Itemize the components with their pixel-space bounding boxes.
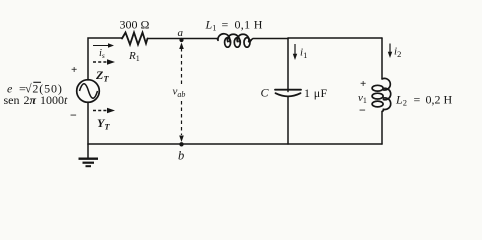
svg-text:b: b — [178, 149, 184, 163]
svg-text:=: = — [414, 93, 421, 107]
node a — [178, 27, 184, 42]
impedance arrow ZT — [93, 59, 115, 83]
label v1 with polarity — [358, 78, 367, 117]
svg-text:YT: YT — [97, 116, 110, 132]
svg-text:0,1 H: 0,1 H — [235, 18, 263, 32]
svg-text:a: a — [178, 27, 184, 39]
svg-text:is: is — [99, 48, 105, 60]
ground — [79, 159, 99, 167]
wire: capacitor branch lower — [287, 97, 289, 145]
svg-text:i1: i1 — [300, 47, 307, 61]
wire: source to bottom — [87, 102, 89, 144]
svg-text:1 μF: 1 μF — [304, 86, 328, 100]
vab dashed measurement line — [173, 43, 186, 143]
svg-text:=: = — [222, 18, 229, 32]
inductor L2 — [372, 78, 391, 111]
wire: L1 to capacitor junction — [251, 39, 288, 40]
svg-text:R1: R1 — [128, 50, 140, 63]
wire: resistor to inductor L1 — [148, 39, 219, 41]
svg-text:vab: vab — [173, 86, 186, 100]
svg-text:sen: sen — [4, 93, 20, 107]
svg-text:−: − — [70, 108, 77, 122]
node b — [178, 142, 184, 162]
label e = sqrt2(50) sen 2pi 1000t — [4, 82, 69, 108]
wire top-left: source to resistor — [88, 38, 122, 80]
svg-text:0,2 H: 0,2 H — [426, 93, 453, 107]
current arrow i2 — [388, 44, 402, 60]
svg-text:+: + — [360, 78, 366, 90]
wire: ground stem — [87, 144, 89, 158]
current arrow is — [93, 43, 114, 60]
wire: bottom — [88, 143, 382, 145]
svg-text:C: C — [261, 86, 270, 100]
svg-text:300 Ω: 300 Ω — [120, 18, 150, 32]
svg-text:−: − — [359, 103, 366, 117]
svg-text:2π: 2π — [24, 93, 37, 107]
resistor R1 — [122, 33, 148, 45]
svg-text:L1: L1 — [205, 18, 217, 33]
inductor L1 — [218, 34, 251, 47]
label L2 = 0,2 H — [395, 93, 453, 108]
wire: right branch upper — [381, 38, 383, 79]
voltage source E — [77, 80, 100, 103]
wire: capacitor junction to top-right corner — [288, 37, 382, 39]
label L1 = 0,1 H — [205, 18, 263, 33]
svg-text:1000t: 1000t — [40, 93, 68, 107]
wire: right branch lower — [381, 111, 383, 144]
current arrow i1 — [293, 44, 308, 60]
wire: capacitor branch upper — [287, 38, 289, 92]
svg-text:ZT: ZT — [95, 68, 109, 84]
svg-text:+: + — [71, 64, 77, 76]
svg-text:i2: i2 — [394, 46, 401, 60]
svg-text:L2: L2 — [395, 93, 407, 108]
admittance arrow YT — [93, 108, 115, 132]
capacitor C plates — [275, 90, 301, 97]
